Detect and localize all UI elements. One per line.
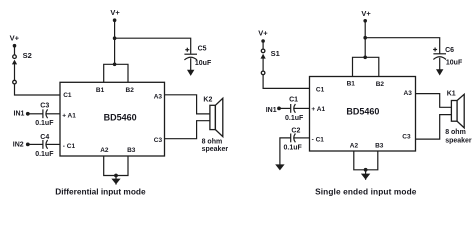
wire V+ dot to S2 [14,46,16,55]
wire V+ dot to S1 [262,41,264,49]
terminal dot V+ [261,39,265,43]
capacitor C3 [35,102,54,127]
svg-text:C3: C3 [40,102,49,109]
svg-text:IN1: IN1 [14,110,25,117]
svg-text:IN2: IN2 [13,142,24,149]
svg-text:C1: C1 [63,92,72,99]
switch S2 [12,51,32,84]
ground (bottom left IC) [115,176,117,185]
svg-text:BD5460: BD5460 [346,106,379,116]
wire C2 to ground [280,138,291,165]
capacitor C1 [285,96,304,122]
wire bracket to pins B1 B2 [353,57,379,76]
wire C3 pin to speaker K2 [165,121,210,139]
wire IN2 to C4 [28,143,43,145]
wire A3 to speaker K2 [165,95,210,114]
wire C4 to pin C1- [46,143,60,145]
svg-text:B3: B3 [127,147,136,154]
switch S1 [261,49,280,75]
terminal dot V+ [13,44,17,48]
svg-text:0.1uF: 0.1uF [284,145,303,152]
wire bracket to pins B1 B2 [104,64,128,82]
junction dot ground bracket [114,174,118,178]
wire A2 B3 to ground bracket [104,156,128,176]
wire V+ down to junction [364,21,366,38]
svg-text:- C1: - C1 [63,143,76,150]
svg-text:V+: V+ [10,33,20,42]
svg-text:C5: C5 [198,46,207,53]
speaker K1 [445,91,472,145]
svg-text:V+: V+ [258,29,268,38]
ground (bottom right IC) [365,170,367,180]
svg-text:B1: B1 [347,80,356,87]
wire junction to C6 [365,38,440,54]
svg-text:0.1uF: 0.1uF [285,115,304,122]
svg-text:Differential input mode: Differential input mode [55,186,146,196]
svg-text:0.1uF: 0.1uF [35,120,54,127]
svg-text:V+: V+ [361,9,371,18]
wire S1 to IC pin C1 [263,75,309,88]
svg-text:S1: S1 [271,49,280,58]
svg-text:K2: K2 [203,97,212,104]
junction dot [113,36,117,40]
svg-text:C1: C1 [316,87,325,94]
wire junction to C5 [115,38,191,54]
capacitor C6 [433,47,463,67]
wire junction down to bracket [364,38,366,58]
svg-text:0.1uF: 0.1uF [35,151,54,158]
svg-text:+ A1: + A1 [311,106,325,113]
svg-text:C2: C2 [291,128,300,135]
wire S2 to IC pin C1 [15,84,61,95]
wire C2 to pin C1- [294,137,310,139]
svg-text:speaker: speaker [445,138,472,145]
ground (C6) [436,69,443,75]
wire C1 to pin A1 [294,107,310,109]
wire A3 to speaker K1 [416,94,452,108]
svg-text:B3: B3 [375,142,384,149]
svg-text:C1: C1 [289,96,298,103]
svg-text:A2: A2 [350,143,359,150]
wire junction down to bracket [114,38,116,64]
svg-text:B2: B2 [376,81,385,88]
ground (C2) [275,164,284,170]
svg-text:B2: B2 [126,87,135,94]
svg-text:- C1: - C1 [312,136,325,143]
svg-text:C6: C6 [445,47,454,54]
svg-text:Single ended input mode: Single ended input mode [315,187,417,197]
IC U2 BD5460 [310,77,416,152]
wire A2 B3 to ground bracket (right) [354,151,378,170]
capacitor C5 [184,46,212,67]
junction dot ground bracket [364,168,368,172]
junction dot [363,36,367,40]
svg-text:BD5460: BD5460 [104,112,137,122]
wire C5 to ground [190,58,192,70]
svg-text:8 ohm: 8 ohm [445,129,466,136]
svg-text:B1: B1 [96,87,105,94]
wire V+ down to junction [114,20,116,38]
svg-text:K1: K1 [447,91,456,98]
wire IN1 to C3 [28,113,43,115]
IC U1 BD5460 [60,82,165,156]
svg-text:A2: A2 [100,147,109,154]
svg-text:+ A1: + A1 [62,112,76,119]
svg-text:S2: S2 [23,51,32,60]
capacitor C2 [284,128,303,152]
wire IN1 to C1 [279,107,291,109]
svg-text:V+: V+ [110,8,120,17]
svg-text:speaker: speaker [202,146,229,153]
speaker K2 [202,97,229,154]
wire C3 to pin A1 [46,113,60,115]
svg-text:C3: C3 [154,137,163,144]
svg-text:10uF: 10uF [446,59,463,66]
wire C3 pin to speaker K1 [416,115,452,140]
wire C6 to ground [439,58,441,70]
junction dot on bracket [363,56,367,60]
svg-text:10uF: 10uF [195,60,212,67]
svg-text:C4: C4 [40,134,49,141]
junction dot on bracket [113,63,117,67]
terminal dot V+ top [113,18,117,22]
svg-text:C3: C3 [402,133,411,140]
terminal dot V+ top [363,19,367,23]
svg-text:A3: A3 [154,93,163,100]
capacitor C4 [35,134,54,158]
ground (C5) [187,70,194,76]
svg-text:A3: A3 [404,90,413,97]
svg-text:8 ohm: 8 ohm [202,139,223,146]
svg-text:IN1: IN1 [266,107,277,114]
